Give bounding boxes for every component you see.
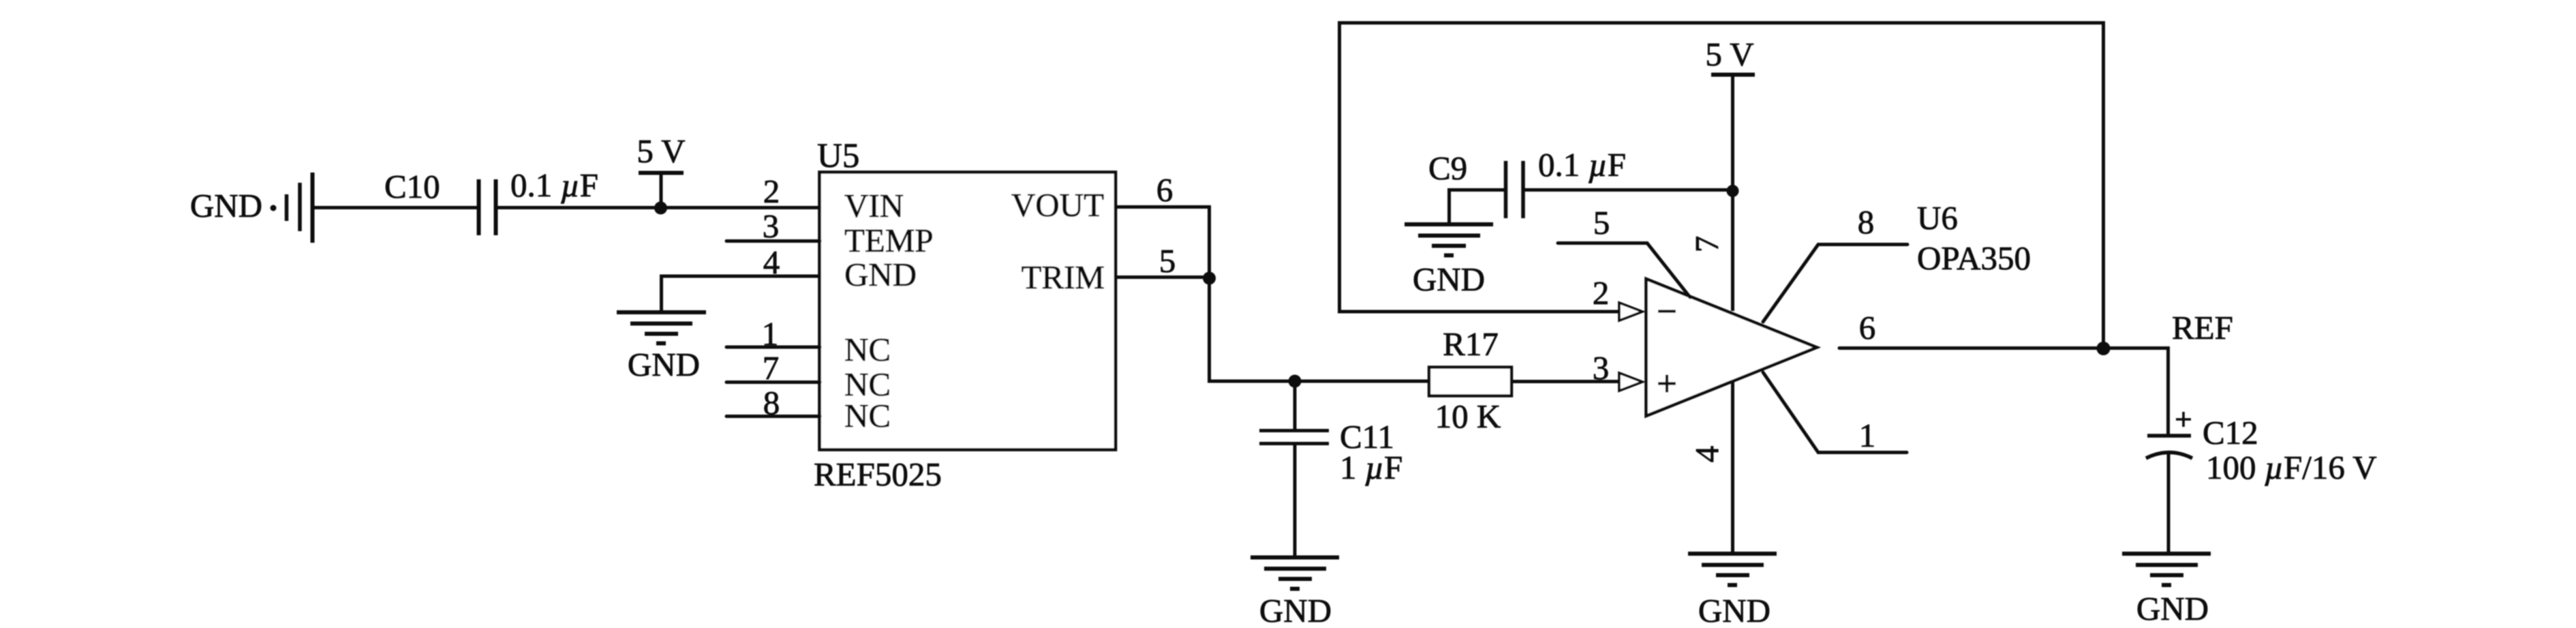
svg-text:C10: C10 (384, 168, 440, 205)
wire C10 to U5 VIN (pin 2) through 5V junction (495, 206, 820, 209)
svg-text:5: 5 (1593, 204, 1610, 241)
junction node (VOUT/TRIM tie) (1203, 272, 1216, 285)
pin 5 (TRIM) wire (1116, 275, 1209, 279)
pin 1 wire (726, 346, 820, 349)
pin 6 (VOUT) wire with drop to TRIM node (1116, 207, 1210, 382)
pin name NC (pin7) (844, 365, 891, 403)
svg-text:5: 5 (1159, 242, 1176, 280)
ground (U5 pin 4) (617, 312, 706, 383)
pin 5 number (1159, 242, 1176, 280)
pin 3 (TEMP) wire (726, 239, 820, 243)
power 5 V (left) (637, 132, 685, 208)
svg-text:REF5025: REF5025 (814, 455, 942, 493)
svg-text:GND: GND (190, 187, 262, 224)
svg-text:GND: GND (1259, 592, 1332, 628)
ground flag symbol (rotated bars at left GND) (271, 173, 313, 243)
wire TRIM node to R17 (1208, 380, 1429, 383)
value label 100 uF/16 V (C12) (2206, 449, 2377, 486)
svg-text:3: 3 (1593, 349, 1610, 387)
svg-text:REF: REF (2172, 309, 2233, 346)
svg-text:2: 2 (1593, 274, 1610, 312)
capacitor C9 (1450, 161, 1733, 224)
label C9 (1428, 149, 1467, 187)
power 5 V (op-amp supply) (1705, 35, 1755, 75)
pin 2 number (op-amp) (1593, 274, 1610, 312)
svg-text:NC: NC (844, 331, 891, 368)
svg-text:2: 2 (763, 173, 780, 210)
svg-text:7: 7 (1688, 236, 1726, 253)
wire GND flag to C10 (312, 206, 478, 209)
svg-text:C9: C9 (1428, 149, 1467, 187)
wire R17 to op-amp + input (1512, 380, 1620, 383)
svg-text:0.1 µF: 0.1 µF (510, 166, 598, 204)
non-inverting input arrow (pin 3) (1619, 373, 1642, 391)
pin name NC (pin1) (844, 331, 891, 368)
junction node (C11 tap) (1289, 375, 1302, 388)
svg-text:GND: GND (628, 346, 700, 383)
svg-text:U6: U6 (1917, 199, 1958, 237)
inverting input arrow (pin 2) (1619, 303, 1642, 320)
pin 1 wire (op-amp) (1763, 372, 1907, 453)
ground (C11) (1251, 558, 1339, 628)
svg-text:5 V: 5 V (637, 132, 685, 170)
svg-text:GND: GND (844, 256, 917, 293)
pin 4 wire (op-amp ground) (1731, 381, 1734, 554)
capacitor C11 (1259, 381, 1329, 558)
svg-text:C12: C12 (2203, 414, 2258, 451)
svg-text:VIN: VIN (844, 187, 904, 224)
plus sign (1658, 375, 1676, 393)
svg-text:4: 4 (1688, 446, 1726, 463)
label C11 (1340, 418, 1394, 455)
svg-text:6: 6 (1859, 309, 1876, 346)
minus sign (1658, 310, 1676, 312)
pin name NC (pin8) (844, 397, 891, 434)
svg-text:U5: U5 (817, 137, 859, 175)
IC U5 box (820, 173, 1116, 450)
svg-text:GND: GND (2136, 590, 2209, 627)
pin name VOUT (1011, 186, 1104, 224)
svg-text:1: 1 (1859, 417, 1876, 454)
ground (C9) (1405, 224, 1493, 298)
svg-text:NC: NC (844, 397, 891, 434)
svg-text:8: 8 (763, 384, 780, 421)
resistor R17 (1429, 325, 1512, 435)
svg-text:R17: R17 (1443, 325, 1499, 363)
pin 6 output wire to REF (1839, 346, 2168, 350)
junction node (5V / C10 / VIN) (654, 202, 667, 215)
capacitor C12 (polarized) (2146, 412, 2192, 554)
node GND (left input rail label) (190, 187, 262, 224)
label OPA350 (1917, 239, 2031, 277)
pin 7 number (rotated) (1688, 236, 1726, 253)
label U6 (1917, 199, 1958, 237)
svg-text:0.1 µF: 0.1 µF (1538, 146, 1626, 183)
value label 0.1 uF (C9) (1538, 146, 1626, 183)
svg-text:3: 3 (763, 207, 780, 245)
pin 3 number (763, 207, 780, 245)
pin 1 number (op-amp) (1859, 417, 1876, 454)
svg-text:4: 4 (763, 243, 780, 281)
pin 6 number (op-amp) (1859, 309, 1876, 346)
pin 2 number (763, 173, 780, 210)
node REF label (2172, 309, 2233, 346)
junction node (C9 / 5V) (1727, 185, 1739, 197)
capacitor C10 (384, 168, 496, 235)
pin 7 supply wire (1731, 74, 1734, 311)
label C12 (2203, 414, 2258, 451)
ground (C12) (2122, 554, 2211, 627)
pin name TEMP (844, 222, 934, 259)
pin 4 number (763, 243, 780, 281)
pin 8 wire (726, 415, 820, 418)
pin 4 number (rotated) (1688, 446, 1726, 463)
svg-text:6: 6 (1156, 171, 1174, 209)
svg-text:7: 7 (763, 349, 780, 387)
pin 8 wire (op-amp trim) (1763, 245, 1907, 323)
label U5 (817, 137, 859, 175)
svg-text:GND: GND (1698, 592, 1770, 628)
pin 7 wire (726, 380, 820, 384)
value label 1 uF (C11) (1340, 449, 1402, 486)
pin 5 wire (op-amp trim) (1558, 243, 1690, 298)
op-amp U6 triangle (1646, 279, 1818, 416)
svg-text:8: 8 (1858, 203, 1875, 241)
junction node (feedback / REF) (2097, 342, 2111, 355)
pin name GND (844, 256, 917, 293)
svg-text:10 K: 10 K (1435, 398, 1501, 435)
ground (op-amp pin 4) (1688, 554, 1777, 628)
value label 0.1 uF (C10) (510, 166, 598, 204)
wire feedback loop (output to inverting input) (1340, 23, 2104, 349)
pin 3 number (op-amp) (1593, 349, 1610, 387)
svg-text:1 µF: 1 µF (1340, 449, 1402, 486)
svg-text:1: 1 (762, 315, 779, 353)
pin 1 number (762, 315, 779, 353)
svg-text:100 µF/16 V: 100 µF/16 V (2206, 449, 2377, 486)
svg-text:5 V: 5 V (1705, 35, 1753, 73)
pin 8 number (op-amp) (1858, 203, 1875, 241)
pin 6 number (1156, 171, 1174, 209)
pin 4 (GND) wire (662, 276, 821, 312)
svg-text:TRIM: TRIM (1022, 258, 1105, 296)
svg-text:VOUT: VOUT (1011, 186, 1104, 224)
pin 8 number (763, 384, 780, 421)
pin name TRIM (1022, 258, 1105, 296)
pin name VIN (844, 187, 904, 224)
wire REF corner down to C12 (2166, 346, 2170, 436)
svg-text:TEMP: TEMP (844, 222, 934, 259)
label REF5025 (814, 455, 942, 493)
pin 5 number (op-amp) (1593, 204, 1610, 241)
svg-text:GND: GND (1413, 260, 1485, 298)
svg-text:OPA350: OPA350 (1917, 239, 2031, 277)
pin 7 number (763, 349, 780, 387)
